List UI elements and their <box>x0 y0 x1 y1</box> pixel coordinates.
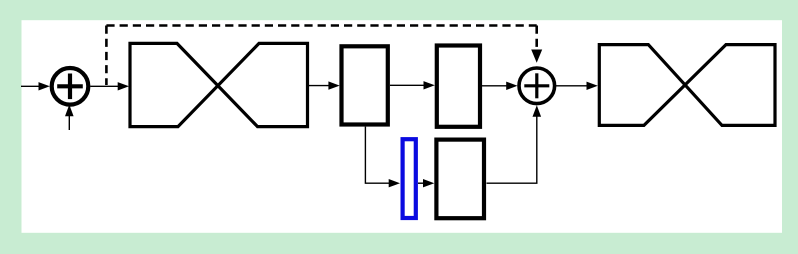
adder A2 <box>519 68 555 104</box>
wire block B1 to block B2 <box>390 81 435 89</box>
wire block B2 to adder A2 <box>482 82 518 90</box>
block B2 <box>437 46 480 127</box>
wire block B1 down to blue block D1 <box>365 127 400 188</box>
wire noise input up into adder A1 <box>65 105 74 130</box>
blue block D1 <box>403 139 416 218</box>
block B1 <box>342 46 388 124</box>
wire adder A2 to bowtie block F2 <box>556 82 598 90</box>
adder A1 <box>52 68 89 105</box>
wire adder A1 to block F1 <box>90 82 129 90</box>
block B3 <box>436 140 484 219</box>
bowtie block F2 <box>599 45 775 126</box>
white canvas <box>22 20 783 233</box>
wire block F1 to block B1 <box>309 81 340 89</box>
bowtie block F1 <box>130 43 308 126</box>
wire input to adder A1 <box>21 82 50 90</box>
wire block B3 up into adder A2 <box>487 105 542 183</box>
wire blue block D1 to block B3 <box>418 179 434 187</box>
dashed feedforward wire from node after A1 to adder A2 <box>106 26 542 86</box>
